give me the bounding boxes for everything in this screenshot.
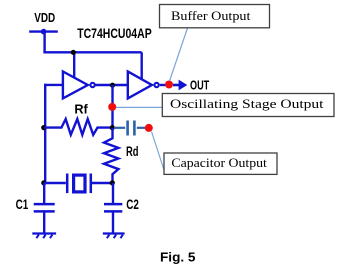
capacitor C1	[34, 183, 55, 234]
svg-text:OUT: OUT	[190, 78, 209, 92]
wire left feedback	[44, 84, 46, 183]
wire U1b output	[160, 84, 169, 86]
wire stub to U1b power	[140, 52, 142, 79]
wire VDD rail	[43, 51, 141, 53]
ground under C1	[32, 234, 56, 239]
svg-text:Buffer Output: Buffer Output	[171, 8, 251, 23]
U1b output bubble	[154, 83, 158, 87]
wire U1a input	[44, 84, 63, 86]
node crystal right	[110, 180, 115, 185]
node Rf right	[110, 125, 115, 130]
ground under C2	[103, 234, 125, 239]
node crystal left	[41, 180, 46, 185]
svg-text:Oscillating Stage Output: Oscillating Stage Output	[170, 96, 324, 111]
node buffer output (red)	[165, 81, 173, 89]
resistor Rf	[44, 119, 113, 135]
node between inverters	[110, 83, 115, 88]
wire OUT arrow	[173, 84, 180, 87]
node capacitor output (red)	[145, 124, 153, 132]
wire stub to U1a power	[73, 52, 75, 78]
svg-text:C1: C1	[16, 197, 29, 212]
resistor Rd	[104, 128, 118, 183]
crystal X1	[67, 174, 91, 194]
svg-text:Rf: Rf	[74, 102, 88, 117]
svg-text:Fig. 5: Fig. 5	[160, 250, 196, 265]
svg-text:Rd: Rd	[126, 144, 139, 159]
leader capacitor output	[152, 132, 165, 172]
svg-text:TC74HCU04AP: TC74HCU04AP	[77, 26, 152, 41]
callout box Capacitor Output	[164, 153, 277, 174]
wire VDD down to rail	[43, 32, 45, 53]
callout box Buffer Output	[160, 5, 270, 28]
svg-text:Capacitor Output: Capacitor Output	[171, 155, 267, 170]
node Rf left	[41, 125, 46, 130]
svg-text:VDD: VDD	[34, 11, 55, 25]
wire U1a to U1b	[95, 84, 128, 86]
wire crystal to right	[91, 182, 113, 184]
wire node down to Rf row	[111, 85, 113, 128]
VDD terminal dot	[41, 29, 47, 35]
U1a output bubble	[90, 83, 94, 87]
svg-text:C2: C2	[126, 197, 139, 212]
node oscillating stage output (red)	[108, 103, 116, 111]
leader buffer output	[170, 28, 188, 81]
inverter U1a	[63, 72, 88, 99]
VDD terminal	[29, 30, 58, 32]
callout box Oscillating Stage Output	[162, 94, 334, 117]
inverter U1b	[128, 72, 152, 99]
leader oscillating stage output	[116, 106, 162, 108]
capacitor coupling (steel blue)	[114, 121, 146, 136]
node rail junction	[71, 50, 76, 55]
capacitor C2	[104, 183, 122, 234]
wire to crystal	[44, 182, 66, 184]
